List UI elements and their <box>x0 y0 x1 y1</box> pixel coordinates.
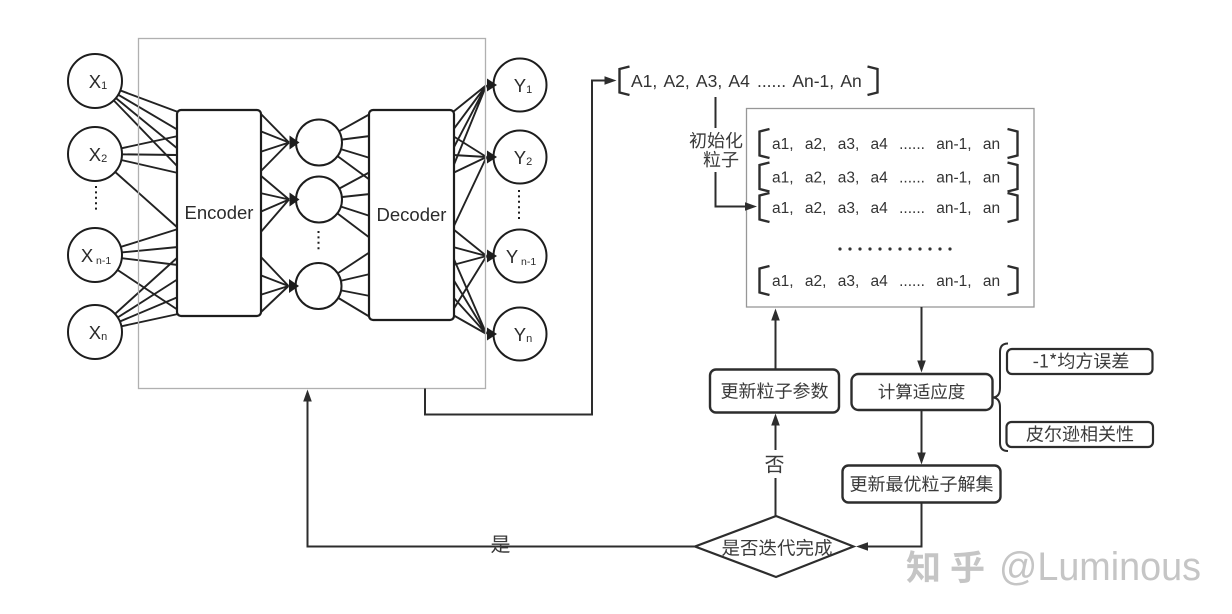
wire update-best to diamond <box>866 503 922 547</box>
node compute fitness box <box>852 374 993 410</box>
dots ellipsis row <box>838 247 951 250</box>
arrowhead into particle row <box>745 202 757 211</box>
svg-text:X: X <box>81 245 93 266</box>
node particle row 4 brackets <box>760 266 1018 295</box>
svg-text:a1, a2, a3, a4 ...... an-1, an: a1, a2, a3, a4 ...... an-1, an <box>772 200 1000 217</box>
node output Yn circle <box>494 308 547 361</box>
svg-text:a1, a2, a3, a4 ...... an-1, an: a1, a2, a3, a4 ...... an-1, an <box>772 170 1000 187</box>
node input Xn-1 circle <box>68 228 122 282</box>
node input X1 circle <box>68 54 122 108</box>
node autoencoder outer container box <box>139 39 486 389</box>
arrowhead into Y circle <box>487 328 497 341</box>
node decision diamond iteration complete <box>695 516 854 577</box>
arrowhead into Y circle <box>487 79 497 92</box>
brace grouping fitness criteria <box>994 344 1009 452</box>
wire update-params to particle box <box>775 319 777 369</box>
node particle row 3 brackets <box>760 193 1018 222</box>
node A vector brackets <box>620 67 878 96</box>
label compute fitness <box>879 383 965 399</box>
node particle row 1 brackets <box>760 129 1018 158</box>
wire network output to A vector <box>425 81 605 415</box>
label iteration complete? <box>722 539 832 556</box>
wire diamond to update-params (no) <box>775 424 777 516</box>
node Encoder box <box>177 110 261 316</box>
arrowhead into update-best box <box>917 453 926 465</box>
arrowhead into network container bottom <box>303 390 312 402</box>
arrowhead into hidden circle <box>289 279 299 293</box>
node input X2 circle <box>68 127 122 181</box>
label update particle parameters <box>721 382 828 399</box>
node particle set box <box>747 109 1035 308</box>
wire A vector to initialize particles <box>716 97 747 207</box>
label -1*MSE <box>1034 352 1129 369</box>
node Decoder box <box>369 110 454 320</box>
svg-text:A1, A2, A3, A4 ...... An-1, An: A1, A2, A3, A4 ...... An-1, An <box>631 71 862 91</box>
svg-text:Y: Y <box>506 246 518 267</box>
wire arrow segment into particle row <box>746 206 748 208</box>
svg-text:n-1: n-1 <box>521 256 536 268</box>
node hidden layer circle h1 <box>296 120 342 166</box>
node output Y1 circle <box>494 59 547 112</box>
svg-text:Encoder: Encoder <box>185 202 254 223</box>
node hidden layer circle h2 <box>296 177 342 223</box>
wire particle box to fitness <box>921 307 923 362</box>
node pearson correlation box <box>1007 422 1154 447</box>
arrowhead into diamond right vertex <box>856 542 868 551</box>
arrowhead into hidden circle <box>290 193 300 207</box>
node particle row 2 brackets <box>760 163 1018 192</box>
arrowhead into Y circle <box>487 250 497 263</box>
label update best particle set <box>850 475 993 492</box>
node hidden layer circle h3 <box>296 263 342 309</box>
wire diamond to network (yes) <box>308 400 696 547</box>
watermark zhihu <box>907 550 984 583</box>
arrowhead into A vector <box>605 76 617 85</box>
node -1*MSE box <box>1007 349 1153 374</box>
dots between hidden circles <box>318 231 320 250</box>
svg-text:@Luminous: @Luminous <box>999 545 1201 589</box>
wire fitness to update-best <box>921 410 923 454</box>
svg-text:a1, a2, a3, a4 ...... an-1, an: a1, a2, a3, a4 ...... an-1, an <box>772 136 1000 153</box>
wire network connection fan lines <box>95 81 487 334</box>
dots between X2 and Xn-1 <box>95 186 97 212</box>
label yes <box>491 536 510 554</box>
label pearson correlation <box>1027 425 1134 442</box>
arrowhead into fitness box <box>917 361 926 373</box>
node update particle parameters box <box>710 370 839 413</box>
node input Xn circle <box>68 305 122 359</box>
svg-text:a1, a2, a3, a4 ...... an-1, an: a1, a2, a3, a4 ...... an-1, an <box>772 273 1000 290</box>
arrowhead into hidden circle <box>290 136 300 150</box>
node output Y2 circle <box>494 131 547 184</box>
svg-text:n-1: n-1 <box>96 255 111 267</box>
label chusihua line2 <box>704 151 739 168</box>
label chusihua line1 <box>690 132 743 149</box>
node update best particle solution set box <box>843 466 1001 503</box>
arrowhead into update-params bottom <box>771 414 780 426</box>
node output Yn-1 circle <box>494 230 547 283</box>
label no <box>765 456 784 473</box>
arrowhead into Y circle <box>487 151 497 164</box>
dots between Y2 and Yn-1 <box>518 190 520 222</box>
arrowhead into particle box bottom <box>771 309 780 321</box>
svg-text:Decoder: Decoder <box>377 204 447 225</box>
